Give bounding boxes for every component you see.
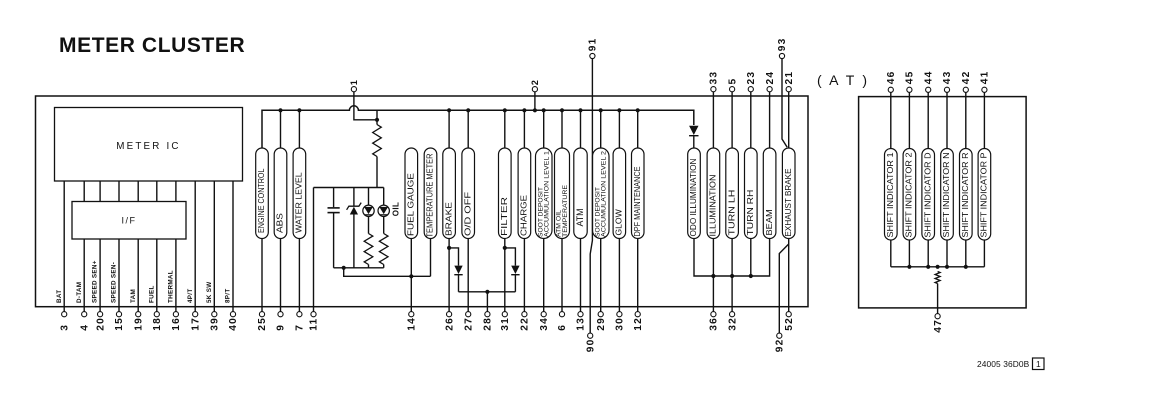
terminal 20 <box>98 312 103 317</box>
svg-text:BRAKE: BRAKE <box>443 201 453 236</box>
svg-text:12: 12 <box>633 317 644 331</box>
wire BAT <box>63 181 65 312</box>
junction gauge rail / pin 14 <box>409 274 413 278</box>
svg-text:45: 45 <box>905 70 916 84</box>
svg-text:42: 42 <box>961 70 972 84</box>
svg-text:TEMPERATURE: TEMPERATURE <box>562 185 569 237</box>
junction <box>964 265 968 269</box>
junction node 2/bus <box>533 108 537 112</box>
wire THERMAL <box>175 239 177 312</box>
wire 5K SW <box>213 181 215 312</box>
diode rail wire <box>459 291 516 293</box>
diode D2 <box>511 266 519 274</box>
terminal 45 <box>907 87 912 92</box>
svg-text:15: 15 <box>114 317 125 331</box>
junction ILLUMINATION rail <box>711 274 715 278</box>
wire bus to pill <box>618 110 620 148</box>
terminal 46 <box>888 87 893 92</box>
svg-text:16: 16 <box>171 317 182 331</box>
svg-text:17: 17 <box>190 317 201 331</box>
svg-text:33: 33 <box>709 71 720 85</box>
wire resistor to lamp rail <box>376 157 378 188</box>
svg-text:44: 44 <box>923 70 934 84</box>
junction node terminal1/resistor <box>375 118 379 122</box>
meter cluster enclosure box <box>36 96 809 307</box>
indicator SHIFT INDICATOR D <box>922 149 935 241</box>
wire METER IC to I/F <box>83 181 85 202</box>
bus wire top <box>262 106 694 148</box>
wire terminal 21 to EXHAUST BRAKE <box>788 92 790 148</box>
indicator GLOW <box>613 148 626 239</box>
svg-text:19: 19 <box>133 317 144 331</box>
wire from terminal 1 <box>354 92 377 120</box>
terminal 92 <box>777 333 782 338</box>
wire bus to pill <box>600 110 602 148</box>
svg-text:41: 41 <box>980 70 991 84</box>
svg-text:26: 26 <box>444 317 455 331</box>
svg-text:OIL: OIL <box>391 202 400 217</box>
svg-text:22: 22 <box>520 317 531 331</box>
wire METER IC to I/F <box>175 181 177 202</box>
junction <box>503 108 507 112</box>
lamp group top rail wire <box>314 187 384 189</box>
diode D3 odo illumination feed <box>689 126 698 135</box>
junction <box>907 265 911 269</box>
svg-text:4: 4 <box>79 324 90 331</box>
lamp common rail wire <box>694 239 770 277</box>
junction FILTER tap <box>503 246 507 250</box>
terminal 23 <box>748 87 753 92</box>
terminal 34 <box>541 312 546 317</box>
svg-text:11: 11 <box>309 318 320 331</box>
svg-text:SHIFT INDICATOR P: SHIFT INDICATOR P <box>979 152 989 237</box>
wire terminal 42 to SHIFT INDICATOR R <box>965 92 967 148</box>
capacitor C1 <box>333 188 335 208</box>
wire pill to pin 30 <box>618 239 620 312</box>
terminal 31 <box>502 312 507 317</box>
svg-text:36: 36 <box>709 317 720 331</box>
LED lamp L2 OIL <box>383 188 385 206</box>
wire SHIFT INDICATOR P to rail <box>983 240 985 267</box>
terminal 28 <box>485 312 490 317</box>
wire ILLUMINATION to pin 36 <box>712 239 714 312</box>
terminal 43 <box>944 87 949 92</box>
svg-text:28: 28 <box>483 317 494 331</box>
svg-text:92: 92 <box>775 339 786 353</box>
wire TURN RH to rail <box>750 239 752 277</box>
svg-text:SHIFT INDICATOR R: SHIFT INDICATOR R <box>960 153 970 238</box>
svg-text:14: 14 <box>407 317 418 331</box>
svg-text:GLOW: GLOW <box>614 209 624 235</box>
resistor R2 <box>364 234 373 265</box>
indicator FILTER <box>499 148 512 239</box>
wire METER IC to I/F <box>137 181 139 202</box>
wire bus to pill <box>543 110 545 148</box>
svg-text:BAT: BAT <box>56 290 63 303</box>
wire SHIFT INDICATOR 1 to rail <box>890 240 892 267</box>
junction rail tap <box>936 265 940 269</box>
terminal 2 <box>532 87 537 92</box>
wire 91 to 90 <box>590 59 592 334</box>
wire FILTER tap to diode D2 <box>505 248 516 266</box>
indicator BEAM <box>763 148 776 239</box>
resistor R4 <box>935 272 940 284</box>
svg-text:4P/T: 4P/T <box>187 289 194 304</box>
svg-text:TURN LH: TURN LH <box>726 190 736 236</box>
wire SHIFT INDICATOR 2 to rail <box>908 240 910 267</box>
terminal 29 <box>598 312 603 317</box>
svg-text:ABS: ABS <box>275 213 285 233</box>
svg-text:TAM: TAM <box>130 289 137 303</box>
junction <box>278 108 282 112</box>
wire bus to ABS <box>280 110 282 148</box>
terminal 17 <box>193 312 198 317</box>
LED lamp L1 <box>368 188 370 206</box>
svg-text:ENGINE CONTROL: ENGINE CONTROL <box>256 168 266 233</box>
svg-text:FUEL: FUEL <box>148 285 155 303</box>
wire METER IC to I/F <box>118 181 120 202</box>
svg-text:BEAM: BEAM <box>764 209 774 235</box>
indicator SHIFT INDICATOR 1 <box>885 149 898 241</box>
wire bus to pill <box>580 110 582 148</box>
indicator CHARGE <box>518 148 531 239</box>
terminal 47 <box>935 314 940 319</box>
wire TAM <box>137 239 139 312</box>
svg-text:METER IC: METER IC <box>116 141 180 152</box>
indicator DPF MAINTENANCE <box>632 148 645 239</box>
wire METER IC to I/F <box>99 181 101 202</box>
svg-text:METER CLUSTER: METER CLUSTER <box>59 34 245 57</box>
wire terminal 24 to BEAM <box>769 92 771 148</box>
terminal 6 <box>559 312 564 317</box>
svg-text:91: 91 <box>588 38 599 52</box>
indicator SHIFT INDICATOR 2 <box>903 149 916 241</box>
indicator ATM <box>574 148 587 239</box>
svg-text:D-TAM: D-TAM <box>76 282 83 303</box>
indicator WATER LEVEL <box>293 148 306 239</box>
lamp group bottom rail wire <box>334 267 384 269</box>
svg-text:FUEL GAUGE: FUEL GAUGE <box>405 172 415 236</box>
wire bus to O/D OFF <box>467 110 469 148</box>
svg-text:40: 40 <box>228 317 239 331</box>
svg-text:1: 1 <box>1036 359 1041 369</box>
svg-text:29: 29 <box>596 317 607 331</box>
indicator SOOT DEPOSIT ACCUMULATION LEVEL 1 <box>536 148 553 239</box>
svg-text:27: 27 <box>463 317 474 331</box>
svg-text:24: 24 <box>765 71 776 85</box>
svg-text:13: 13 <box>576 317 587 331</box>
IC U2 I/F <box>72 202 186 240</box>
wire bus to pill <box>637 110 639 148</box>
junction <box>560 108 564 112</box>
wire SPEED SEN- <box>118 239 120 312</box>
svg-text:20: 20 <box>95 317 106 331</box>
svg-text:( A T ): ( A T ) <box>817 72 869 88</box>
wire SHIFT INDICATOR R to rail <box>965 240 967 267</box>
svg-text:ODO ILLUMINATION: ODO ILLUMINATION <box>688 159 698 237</box>
wire terminal 45 to SHIFT INDICATOR 2 <box>908 92 910 148</box>
svg-text:25: 25 <box>257 317 268 331</box>
terminal 21 <box>786 87 791 92</box>
wire BRAKE tap to diode D1 <box>449 248 458 266</box>
junction <box>599 108 603 112</box>
wire terminal 23 to TURN RH <box>750 92 752 148</box>
svg-text:30: 30 <box>615 317 626 331</box>
svg-text:THERMAL: THERMAL <box>168 270 175 303</box>
wire 93 to EXHAUST BRAKE <box>782 59 787 148</box>
svg-text:8P/T: 8P/T <box>225 289 232 304</box>
wire terminal 2 to bus <box>534 92 536 111</box>
wire TEMPERATURE METER drop <box>430 239 432 277</box>
wire FILTER to pin 31 <box>504 239 506 312</box>
wire EXHAUST BRAKE to pin 92 <box>779 244 788 333</box>
svg-text:SHIFT INDICATOR N: SHIFT INDICATOR N <box>941 153 951 238</box>
resistor R1 <box>373 125 382 157</box>
terminal 9 <box>278 312 283 317</box>
svg-text:TURN RH: TURN RH <box>745 190 755 236</box>
wire ENGINE CONTROL to pin 25 <box>261 239 263 312</box>
wire bus to FILTER <box>504 110 506 148</box>
junction <box>542 108 546 112</box>
svg-text:52: 52 <box>784 317 795 331</box>
terminal 18 <box>154 312 159 317</box>
indicator TURN RH <box>745 148 758 239</box>
wire pill to pin 34 <box>543 239 545 312</box>
wire terminal 5 to TURN LH <box>731 92 733 148</box>
junction TURN RH <box>749 274 753 278</box>
indicator O/D OFF <box>462 148 475 239</box>
terminal 13 <box>578 312 583 317</box>
wire 4P/T <box>194 181 196 312</box>
junction <box>617 108 621 112</box>
indicator TURN LH <box>726 148 739 239</box>
wire pill to pin 6 <box>561 239 563 312</box>
wire FUEL GAUGE to pin 14 <box>410 239 412 312</box>
terminal 22 <box>522 312 527 317</box>
shift indicator common rail wire <box>891 266 985 268</box>
svg-text:5K SW: 5K SW <box>206 282 213 303</box>
svg-text:24005 36D0B: 24005 36D0B <box>977 359 1030 369</box>
terminal 44 <box>926 87 931 92</box>
svg-text:32: 32 <box>727 317 738 331</box>
wire pill to pin 12 <box>637 239 639 312</box>
resistor R3 <box>379 234 388 265</box>
indicator FUEL GAUGE <box>405 148 418 239</box>
svg-text:6: 6 <box>557 324 568 331</box>
indicator ENGINE CONTROL <box>256 148 269 239</box>
junction <box>926 265 930 269</box>
wire terminal 11 riser <box>313 188 315 312</box>
terminal 52 <box>786 312 791 317</box>
junction diode rail / pin 28 <box>485 290 489 294</box>
indicator ODO ILLUMINATION <box>688 148 701 239</box>
indicator SOOT DEPOSIT ACCUMULATION LEVEL 2 <box>593 148 610 239</box>
junction <box>447 108 451 112</box>
svg-text:23: 23 <box>746 71 757 85</box>
indicator SHIFT INDICATOR R <box>960 149 973 241</box>
wire pill to pin 13 <box>580 239 582 312</box>
svg-text:ATM: ATM <box>575 209 585 227</box>
junction BRAKE tap <box>447 246 451 250</box>
indicator SHIFT INDICATOR N <box>941 149 954 241</box>
svg-text:SHIFT INDICATOR 2: SHIFT INDICATOR 2 <box>904 152 914 237</box>
svg-text:SPEED SEN-: SPEED SEN- <box>111 262 118 303</box>
junction <box>522 108 526 112</box>
svg-text:1: 1 <box>349 79 359 85</box>
wire bus to resistor <box>376 110 378 124</box>
svg-text:CHARGE: CHARGE <box>519 194 529 236</box>
terminal 33 <box>711 87 716 92</box>
svg-text:47: 47 <box>933 319 944 333</box>
svg-text:EXHAUST BRAKE: EXHAUST BRAKE <box>783 168 793 236</box>
junction <box>297 108 301 112</box>
svg-text:SHIFT INDICATOR D: SHIFT INDICATOR D <box>922 153 932 238</box>
wire lamp rail to gauge rail <box>344 268 431 277</box>
svg-text:93: 93 <box>777 38 788 52</box>
wire bus to pill <box>561 110 563 148</box>
indicator ILLUMINATION <box>707 148 720 239</box>
svg-text:9: 9 <box>276 324 287 331</box>
wire terminal 46 to SHIFT INDICATOR 1 <box>890 92 892 148</box>
wire to pin 28 <box>486 292 488 312</box>
svg-text:18: 18 <box>152 317 163 331</box>
terminal 1 <box>351 87 356 92</box>
wire WATER LEVEL to pin 7 <box>298 239 300 312</box>
terminal 90 <box>588 333 593 338</box>
junction <box>578 108 582 112</box>
svg-text:DPF MAINTENANCE: DPF MAINTENANCE <box>632 166 642 236</box>
svg-text:21: 21 <box>784 71 795 85</box>
indicator BRAKE <box>443 148 456 239</box>
svg-text:5: 5 <box>727 78 738 85</box>
wire 8P/T <box>232 181 234 312</box>
svg-text:46: 46 <box>886 70 897 84</box>
wire D-TAM <box>83 239 85 312</box>
diode D1 <box>454 266 462 274</box>
indicator ATM OIL TEMPERATURE <box>555 148 570 239</box>
svg-text:39: 39 <box>210 317 221 331</box>
terminal 42 <box>963 87 968 92</box>
wire SPEED SEN+ <box>99 239 101 312</box>
terminal 3 <box>62 312 67 317</box>
terminal 11 <box>311 312 316 317</box>
wire pill to pin 29 <box>600 239 602 312</box>
svg-text:I/F: I/F <box>122 216 137 226</box>
wire bus to CHARGE <box>523 110 525 148</box>
svg-text:90: 90 <box>585 339 596 353</box>
svg-text:SHIFT INDICATOR 1: SHIFT INDICATOR 1 <box>885 152 895 237</box>
svg-text:7: 7 <box>295 324 306 331</box>
wire FUEL <box>156 239 158 312</box>
wire terminal 43 to SHIFT INDICATOR N <box>946 92 948 148</box>
IC U1 METER IC <box>55 108 243 182</box>
terminal 36 <box>711 312 716 317</box>
wire bus to BRAKE <box>448 110 450 148</box>
junction <box>466 108 470 112</box>
wire terminal 44 to SHIFT INDICATOR D <box>927 92 929 148</box>
wire SHIFT INDICATOR D to rail <box>927 240 929 267</box>
terminal 25 <box>259 312 264 317</box>
terminal 14 <box>409 312 414 317</box>
wire CHARGE to pin 22 <box>523 239 525 312</box>
svg-text:3: 3 <box>59 324 70 331</box>
wire SHIFT INDICATOR N to rail <box>946 240 948 267</box>
terminal 93 <box>779 53 784 58</box>
wire METER IC to I/F <box>156 181 158 202</box>
indicator ABS <box>274 148 287 239</box>
terminal 27 <box>466 312 471 317</box>
svg-text:SPEED SEN+: SPEED SEN+ <box>92 260 99 303</box>
wire terminal 41 to SHIFT INDICATOR P <box>983 92 985 148</box>
terminal 7 <box>297 312 302 317</box>
junction <box>945 265 949 269</box>
junction TURN LH rail <box>730 274 734 278</box>
junction <box>636 108 640 112</box>
wire EXHAUST BRAKE to pin 52 <box>788 239 790 312</box>
terminal 19 <box>136 312 141 317</box>
terminal 32 <box>730 312 735 317</box>
svg-text:FILTER: FILTER <box>499 197 509 236</box>
indicator SHIFT INDICATOR P <box>978 149 991 241</box>
terminal 24 <box>767 87 772 92</box>
terminal 16 <box>173 312 178 317</box>
svg-text:O/D OFF: O/D OFF <box>462 192 472 236</box>
shift indicator enclosure box <box>859 97 1027 308</box>
svg-text:34: 34 <box>539 317 550 331</box>
zener diode ZD1 <box>353 188 355 207</box>
terminal 91 <box>590 53 595 58</box>
svg-text:2: 2 <box>530 79 540 85</box>
terminal 40 <box>230 312 235 317</box>
svg-text:TEMPERATURE METER: TEMPERATURE METER <box>425 153 435 237</box>
wire terminal 33 to ILLUMINATION <box>712 92 714 148</box>
svg-text:WATER LEVEL: WATER LEVEL <box>294 172 304 233</box>
terminal 4 <box>82 312 87 317</box>
junction lamp rail tap <box>342 266 346 270</box>
wire bus to WATER LEVEL <box>298 110 300 148</box>
wire O/D OFF to pin 27 <box>467 239 469 312</box>
svg-text:ILLUMINATION: ILLUMINATION <box>708 175 718 237</box>
terminal 41 <box>982 87 987 92</box>
wire to pin 47 <box>937 284 939 314</box>
wire ABS to pin 9 <box>280 239 282 312</box>
terminal 26 <box>447 312 452 317</box>
terminal 30 <box>617 312 622 317</box>
terminal 15 <box>116 312 121 317</box>
wire BRAKE to pin 26 <box>448 239 450 312</box>
svg-text:ACCUMULATION LEVEL 2: ACCUMULATION LEVEL 2 <box>601 151 608 237</box>
indicator TEMPERATURE METER <box>424 148 437 239</box>
sheet number box <box>1033 358 1045 370</box>
svg-text:31: 31 <box>500 317 511 331</box>
terminal 12 <box>635 312 640 317</box>
svg-text:ACCUMULATION LEVEL 1: ACCUMULATION LEVEL 1 <box>544 151 551 237</box>
terminal 5 <box>730 87 735 92</box>
terminal 39 <box>212 312 217 317</box>
svg-text:43: 43 <box>942 70 953 84</box>
wire TURN LH to pin 32 <box>731 239 733 312</box>
indicator EXHAUST BRAKE <box>782 148 795 239</box>
